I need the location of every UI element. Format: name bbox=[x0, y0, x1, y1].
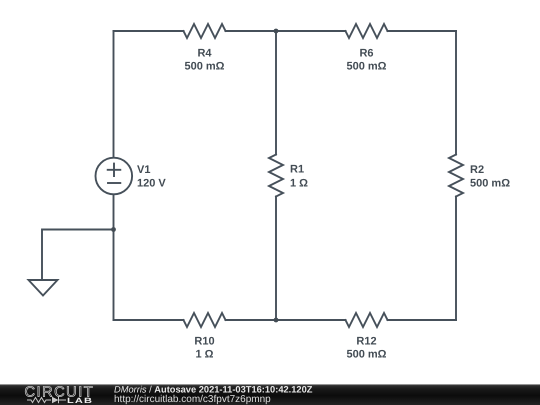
R6 value label bbox=[346, 47, 386, 72]
svg-text:500 mΩ: 500 mΩ bbox=[346, 349, 386, 361]
wire top rail left segment bbox=[114, 30, 184, 32]
resistor R10 bbox=[184, 313, 226, 327]
svg-text:R4: R4 bbox=[197, 47, 212, 59]
R2 value label bbox=[470, 164, 510, 189]
wire top rail middle segment bbox=[226, 30, 346, 32]
footer attribution text bbox=[114, 385, 313, 405]
svg-text:LAB: LAB bbox=[67, 396, 93, 405]
resistor R12 bbox=[346, 313, 388, 327]
footer bar bbox=[0, 384, 540, 405]
wire bottom rail left segment bbox=[114, 319, 184, 321]
voltage source V1 bbox=[96, 158, 133, 195]
ground bbox=[29, 280, 58, 296]
wire right vertical lower bbox=[455, 197, 457, 321]
svg-text:500 mΩ: 500 mΩ bbox=[470, 177, 510, 189]
svg-text:R1: R1 bbox=[290, 164, 304, 176]
wire ground branch bbox=[42, 230, 114, 281]
svg-text:V1: V1 bbox=[137, 164, 150, 176]
resistor R2 bbox=[449, 155, 463, 197]
wire right vertical upper bbox=[455, 31, 457, 155]
svg-text:120 V: 120 V bbox=[137, 177, 166, 189]
wire top rail right segment bbox=[388, 30, 457, 32]
wire middle vertical upper bbox=[275, 31, 277, 155]
V1 value label bbox=[137, 164, 166, 190]
svg-text:R2: R2 bbox=[470, 164, 484, 176]
svg-text:1 Ω: 1 Ω bbox=[290, 177, 308, 189]
svg-text:500 mΩ: 500 mΩ bbox=[346, 61, 386, 73]
wire bottom rail right segment bbox=[388, 319, 457, 321]
R12 value label bbox=[346, 335, 386, 360]
resistor R1 bbox=[269, 155, 283, 197]
CircuitLab logo bbox=[25, 385, 95, 405]
junction node top middle bbox=[274, 29, 279, 34]
svg-text:1 Ω: 1 Ω bbox=[196, 349, 214, 361]
svg-text:R10: R10 bbox=[194, 335, 214, 347]
R10 value label bbox=[194, 335, 214, 360]
svg-text:R12: R12 bbox=[356, 335, 376, 347]
wire left vertical upper bbox=[113, 31, 115, 158]
wire bottom rail middle segment bbox=[226, 319, 346, 321]
svg-text:http://circuitlab.com/c3fpvt7z: http://circuitlab.com/c3fpvt7z6pmnp bbox=[114, 394, 271, 405]
svg-text:R6: R6 bbox=[359, 47, 373, 59]
junction node ground tap bbox=[111, 227, 116, 232]
svg-text:DMorris / Autosave 2021-11-03T: DMorris / Autosave 2021-11-03T16:10:42.1… bbox=[114, 385, 313, 395]
svg-text:500 mΩ: 500 mΩ bbox=[184, 61, 224, 73]
resistor R6 bbox=[346, 24, 388, 38]
wire left vertical lower bbox=[113, 194, 115, 320]
wire middle vertical lower bbox=[275, 197, 277, 321]
junction node bottom middle bbox=[274, 318, 279, 323]
R4 value label bbox=[184, 47, 224, 72]
R1 value label bbox=[290, 164, 308, 190]
resistor R4 bbox=[184, 24, 226, 38]
